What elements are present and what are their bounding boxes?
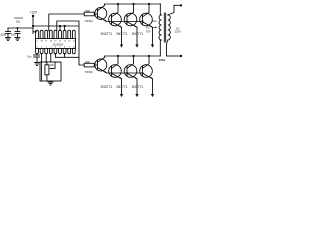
svg-text:39R: 39R — [85, 60, 90, 64]
svg-text:13: 13 — [63, 41, 66, 43]
node dots bottom pins — [45, 53, 65, 63]
wire top collector bus — [105, 3, 161, 5]
node AC out bottom — [159, 55, 182, 62]
wire bottom base bus — [106, 72, 143, 74]
wire cap rail — [8, 27, 33, 29]
transformer T1 — [146, 4, 181, 56]
wire B: IC pin to bottom driver base — [57, 21, 84, 65]
resistor RV1 body — [45, 65, 49, 75]
svg-text:75V: 75V — [146, 29, 151, 33]
transistor Q7 2N3771 — [116, 55, 139, 97]
ground C3 — [35, 63, 40, 66]
IC U1 body — [36, 39, 76, 49]
wire pin3 to box — [45, 54, 47, 62]
svg-text:100u: 100u — [0, 32, 6, 36]
trimmer box enclosure — [40, 62, 61, 81]
svg-text:2N3771: 2N3771 — [116, 85, 128, 89]
svg-text:TIP41C: TIP41C — [85, 71, 94, 74]
node junction cap2 — [16, 27, 18, 29]
wire bottom collector bus — [105, 55, 161, 57]
wire 12V to pin1 — [33, 31, 37, 33]
capacitor C3 at pin1 — [27, 55, 40, 63]
svg-text:2N3771: 2N3771 — [132, 32, 144, 36]
svg-text:500w: 500w — [159, 58, 166, 62]
svg-text:2N3771: 2N3771 — [132, 85, 144, 89]
svg-text:12: 12 — [68, 41, 71, 43]
svg-text:2200uF: 2200uF — [14, 16, 23, 20]
svg-text:DC: DC — [146, 26, 150, 30]
svg-text:25v: 25v — [16, 20, 21, 24]
node dot pin7 rail — [63, 25, 65, 27]
wire 12V rail to IC pins — [33, 25, 78, 27]
transistor Q6 2N3771 — [101, 55, 124, 97]
transistor Q8 2N3771 — [132, 55, 155, 97]
wire +12V vertical — [32, 16, 34, 34]
wire top base bus — [106, 21, 143, 23]
svg-text:1UF: 1UF — [152, 19, 157, 23]
svg-text:1: 1 — [36, 41, 38, 43]
svg-text:2N3771: 2N3771 — [101, 32, 113, 36]
ground C2 — [15, 38, 20, 41]
wire pin1 to C3 — [36, 54, 38, 55]
wire pin6 to rail — [59, 26, 61, 30]
svg-text:TIP41C: TIP41C — [85, 20, 94, 23]
transistor Q5 TIP41C bottom driver — [95, 56, 107, 73]
ground below box — [48, 81, 53, 85]
node junction 12V rail — [32, 25, 34, 27]
svg-text:220V: 220V — [175, 30, 181, 33]
transistor Q1 TIP41C top driver — [95, 4, 107, 21]
capacitor C2 — [11, 16, 23, 38]
transistor Q3 2N3771 — [116, 3, 139, 48]
resistor R1 39R top — [84, 9, 97, 23]
resistor R2 39R bottom — [84, 60, 97, 74]
ground C1 — [6, 38, 11, 41]
node AC out top — [174, 4, 182, 6]
node +12V terminal — [30, 11, 38, 18]
capacitor C1 — [0, 28, 10, 38]
IC top pin loops — [36, 30, 76, 38]
svg-text:+12V: +12V — [30, 11, 38, 15]
svg-text:17: 17 — [45, 41, 48, 43]
svg-text:2N3771: 2N3771 — [116, 32, 128, 36]
wire pin2 through box — [41, 54, 43, 81]
IC U1 pin numbers bottom — [36, 47, 75, 49]
svg-text:39R: 39R — [85, 9, 90, 13]
svg-text:10n: 10n — [27, 55, 32, 59]
IC bottom pin loops — [36, 49, 76, 54]
transistor Q2 2N3771 — [101, 3, 124, 48]
wire pin4 to box — [50, 54, 52, 62]
svg-text:18: 18 — [40, 41, 43, 43]
node dot pin6 rail — [59, 25, 61, 27]
svg-text:10k: 10k — [50, 64, 55, 67]
IC U1 pin numbers top — [36, 41, 75, 43]
wiper arrow RV1 — [49, 62, 55, 69]
svg-text:10u: 10u — [11, 32, 16, 36]
wire pin5/pin7 net — [54, 54, 56, 58]
svg-text:2N3771: 2N3771 — [101, 85, 113, 89]
transistor Q4 2N3771 — [132, 3, 155, 48]
wire pin7 to rail — [64, 26, 66, 30]
wire A: IC pin to top driver base — [49, 14, 84, 31]
